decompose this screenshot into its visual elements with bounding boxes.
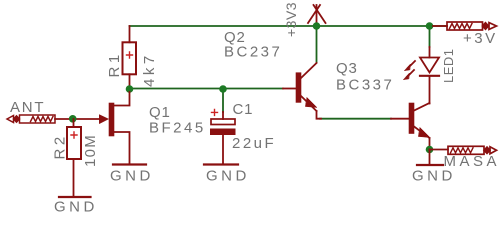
LED LED1 xyxy=(403,47,439,104)
resistor R1 xyxy=(123,42,137,74)
capacitor C1 xyxy=(222,112,224,119)
node junction LED/+3V xyxy=(426,22,434,30)
wire C1 top vertical xyxy=(222,89,224,112)
node junction +3V3 xyxy=(313,22,321,30)
wire to MASA xyxy=(430,149,449,151)
transistor Q1 xyxy=(100,92,130,163)
ground below R2 xyxy=(59,196,91,198)
wire R2 to GND xyxy=(73,159,75,196)
connector MASA xyxy=(448,146,497,154)
svg-text:BC237: BC237 xyxy=(224,44,282,61)
svg-text:C1: C1 xyxy=(233,101,254,118)
svg-text:+3V: +3V xyxy=(463,30,498,47)
svg-text:BF245: BF245 xyxy=(149,120,206,137)
node junction ANT/R2 xyxy=(69,115,77,123)
pin R1 top xyxy=(129,26,131,42)
ground below MASA junction xyxy=(417,164,443,166)
wire junction to R2 xyxy=(73,119,75,127)
node junction R1/Q1 drain/base net xyxy=(126,85,134,93)
svg-text:R2: R2 xyxy=(52,133,69,159)
power +3V3 xyxy=(308,5,326,26)
wire ANT to gate xyxy=(55,118,100,120)
svg-text:LED1: LED1 xyxy=(441,48,456,83)
svg-text:4k7: 4k7 xyxy=(141,52,158,87)
ground below C1 xyxy=(204,163,238,165)
wire Q2 emitter to Q3 base xyxy=(320,118,391,120)
svg-text:GND: GND xyxy=(412,168,456,185)
wire top rail xyxy=(130,25,448,27)
wire Q2 collector vertical xyxy=(316,26,318,62)
svg-text:GND: GND xyxy=(54,199,98,216)
ground below Q1 xyxy=(113,163,146,165)
wire junction to GND xyxy=(429,150,431,165)
wire LED anode vertical xyxy=(429,26,431,47)
svg-text:BC337: BC337 xyxy=(336,77,394,94)
svg-text:GND: GND xyxy=(206,168,250,185)
pin R1 bottom xyxy=(129,74,131,89)
svg-text:Q3: Q3 xyxy=(336,60,358,77)
svg-text:+3V3: +3V3 xyxy=(283,2,299,37)
wire base net horizontal xyxy=(130,88,284,90)
connector +3V xyxy=(433,25,447,27)
svg-text:22uF: 22uF xyxy=(232,135,276,152)
connector ANT xyxy=(7,115,55,123)
svg-text:Q1: Q1 xyxy=(149,104,171,121)
transistor Q3 xyxy=(391,103,430,150)
wire C1 to GND xyxy=(222,135,224,163)
node junction Q3 emitter/MASA/GND xyxy=(426,146,434,154)
svg-text:10M: 10M xyxy=(82,134,99,167)
svg-text:R1: R1 xyxy=(106,51,123,77)
svg-text:GND: GND xyxy=(110,168,154,185)
node junction C1/base net xyxy=(219,85,227,93)
resistor R2 xyxy=(67,127,81,159)
svg-text:ANT: ANT xyxy=(10,99,45,116)
transistor Q2 xyxy=(283,63,321,119)
